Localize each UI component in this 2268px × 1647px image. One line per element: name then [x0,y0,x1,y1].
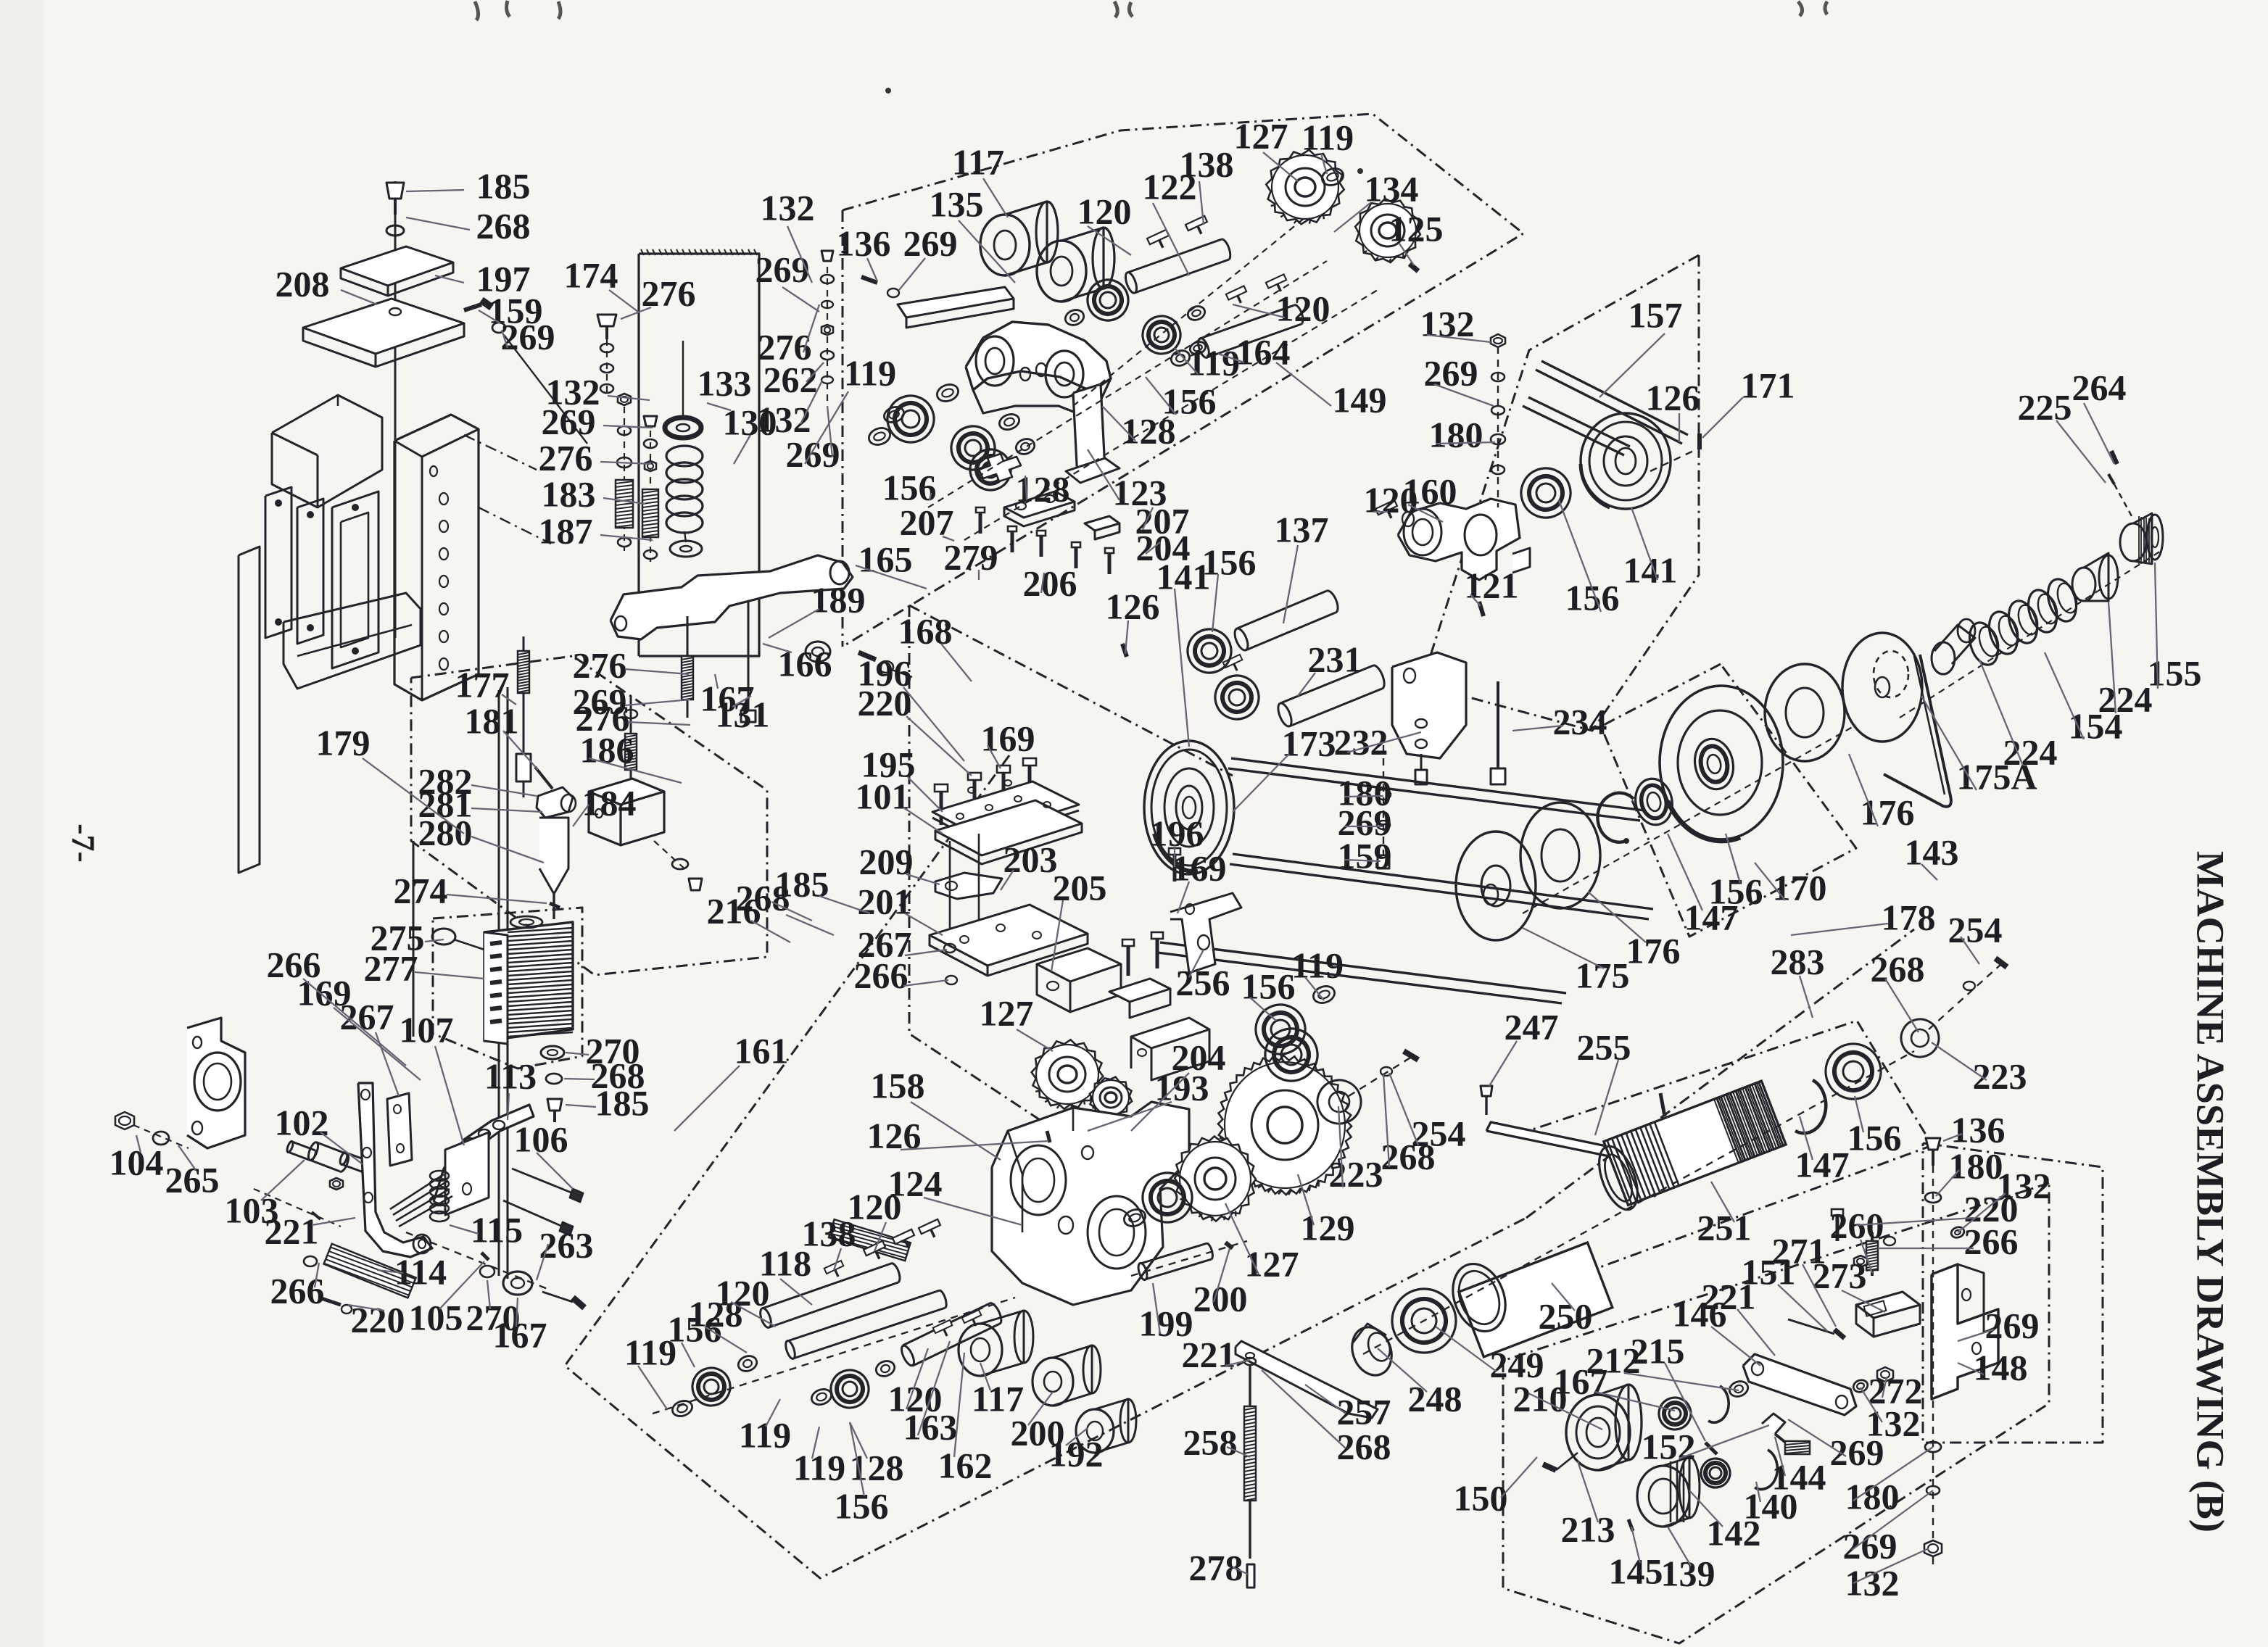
rod 258 threaded [1249,1366,1251,1559]
svg-text:137: 137 [1275,509,1329,549]
screw 186 shaft [630,696,632,779]
screw 260 [1871,1232,1874,1276]
pin 221a [312,1212,320,1219]
svg-text:117: 117 [952,141,1004,182]
svg-text:231: 231 [1308,639,1362,679]
snap 147b [1597,793,1634,842]
svg-text:119: 119 [793,1447,845,1488]
svg-text:126: 126 [1106,586,1160,626]
svg-text:125: 125 [1389,208,1444,249]
bearing 152b [1655,1393,1695,1434]
svg-text:258: 258 [1183,1422,1238,1462]
svg-text:161: 161 [734,1030,789,1071]
rings 128/119 [736,1353,758,1374]
svg-text:174: 174 [564,254,618,295]
svg-text:255: 255 [1577,1026,1631,1067]
shaft 162 [903,1303,990,1345]
svg-text:173: 173 [1282,723,1336,763]
bearing 156j [1631,776,1676,829]
svg-text:138: 138 [802,1213,856,1253]
screw 266/220 [304,1256,317,1266]
svg-text:-7-: -7- [65,823,102,863]
ring 119d [882,405,906,425]
svg-text:216: 216 [707,890,761,931]
shaft 118 threaded [829,1219,911,1261]
pulley 141 right [1581,413,1671,509]
svg-text:128: 128 [850,1447,904,1488]
snap 140 [1755,1450,1777,1489]
bolt 276 box174 [597,315,616,326]
bolt 185b [547,1099,562,1111]
screw 254b [1404,1051,1418,1060]
svg-text:170: 170 [1773,867,1827,908]
screw 234 [1497,681,1499,768]
screw 144 [1762,1414,1785,1434]
lever 146 [1743,1354,1856,1415]
boundary box 174 [639,254,759,656]
svg-text:139: 139 [1661,1553,1716,1593]
svg-text:150: 150 [1454,1477,1508,1518]
svg-text:220: 220 [351,1299,405,1340]
ring 275 [432,929,455,945]
washer 133 [665,418,701,438]
screw 159 [464,304,481,310]
bracket 204c [1109,979,1170,1002]
axis dash pulley group [1523,725,1856,913]
cup 248 [1346,1322,1399,1381]
svg-text:180: 180 [1949,1145,2003,1186]
screw stack 196/220 [968,773,981,813]
svg-text:250: 250 [1539,1295,1593,1336]
svg-text:225: 225 [2018,386,2072,427]
bracket 256 [1170,893,1241,973]
bearing 249 [1383,1280,1465,1362]
svg-text:269: 269 [542,401,596,441]
svg-text:176: 176 [1861,792,1915,832]
microswitch 273 [1856,1292,1920,1318]
svg-text:119: 119 [1291,945,1344,985]
gear 127a [1257,140,1354,234]
svg-text:171: 171 [1741,365,1795,405]
clip 121 small [1512,548,1530,573]
svg-text:269: 269 [1843,1525,1897,1566]
svg-text:157: 157 [1628,294,1683,335]
svg-text:159: 159 [1338,835,1392,876]
ring 119a [866,426,893,448]
cross 128c [979,454,1021,481]
svg-text:119: 119 [1188,342,1240,383]
pulley 210 [1566,1395,1630,1470]
svg-text:106: 106 [514,1119,568,1159]
svg-text:126: 126 [1646,377,1700,418]
bearing 156 inside pulley [1690,735,1737,792]
bracket 113 lower [445,1132,489,1215]
boundary box 157/171 belt unit [1421,255,1699,731]
washer 270 [541,1046,564,1059]
screw 215b [1705,1443,1717,1454]
boundary box 170 pulley unit [1601,664,1856,937]
frame main column [394,415,479,700]
bearing 204b [1258,1021,1325,1088]
svg-text:177: 177 [455,664,510,705]
svg-text:254: 254 [1948,909,2003,950]
svg-text:179: 179 [316,722,371,763]
gear 127 centre [1022,1030,1113,1119]
stack column 183/187 [624,395,625,551]
svg-text:186: 186 [580,729,634,770]
rod 197 axis [394,181,397,638]
svg-text:180: 180 [1429,414,1483,455]
bracket 160/121 [1398,499,1520,580]
svg-text:248: 248 [1408,1378,1462,1419]
svg-text:221: 221 [265,1211,319,1251]
keys 120/138/118 [864,1241,889,1264]
svg-text:189: 189 [811,579,866,620]
stack column 187 [650,419,651,562]
boundary diamond 161 [565,755,1526,1578]
svg-text:269: 269 [903,223,958,263]
svg-text:184: 184 [582,782,637,823]
svg-text:276: 276 [573,644,627,685]
svg-text:166: 166 [778,643,832,684]
svg-text:269: 269 [1985,1305,2040,1345]
svg-text:167: 167 [1554,1361,1608,1401]
screw 247b [1481,1086,1492,1096]
washer 131 bottom [670,541,702,557]
svg-text:256: 256 [1176,962,1230,1003]
belt 157 lines [1536,370,1682,444]
svg-text:162: 162 [938,1445,993,1485]
disc 175 [1456,831,1536,940]
block 184 [589,779,664,805]
screw 254c [1995,958,2007,967]
svg-text:234: 234 [1553,701,1607,742]
svg-text:134: 134 [1365,168,1419,209]
gear 129 [1200,1037,1370,1212]
belt 143 [1884,655,1951,807]
boundary box 148 column [1923,1143,2103,1443]
bearing 156b lower [964,444,1017,496]
rod 177 [523,636,525,760]
boundary box solenoid 277 [433,908,582,1069]
washer 268b [546,1074,562,1084]
screws 106 [512,1169,573,1193]
spring 154 [1965,619,2003,668]
screw 213 [1543,1464,1556,1470]
clips 207/204 [1085,516,1119,531]
screws 267/266 [949,841,951,928]
plate 195/101 [932,781,1079,837]
shaft 120a [1127,239,1222,273]
svg-text:107: 107 [400,1009,454,1050]
svg-text:181: 181 [465,700,519,741]
svg-text:156: 156 [835,1485,889,1526]
construction line 178 [1526,929,1914,1218]
roller 117a [980,215,1030,275]
svg-text:167: 167 [493,1314,547,1355]
pin 121b [1479,602,1483,616]
svg-text:280: 280 [418,812,473,852]
svg-text:132: 132 [761,187,815,228]
svg-text:269: 269 [501,316,555,357]
pin 126d [1122,644,1127,657]
pulley 170 [1660,686,1783,839]
svg-text:268: 268 [1871,948,1925,989]
lever 102 J-shape [358,1083,432,1257]
belt 173 lines [1231,758,1644,810]
svg-text:276: 276 [758,326,812,367]
axis dash lines box A [928,261,1327,507]
svg-text:127: 127 [1245,1243,1299,1284]
svg-text:247: 247 [1505,1006,1559,1047]
svg-text:276: 276 [539,437,593,478]
washer 265 [153,1132,169,1145]
shaft 231 [1280,665,1373,703]
washer 269 [492,323,505,333]
svg-text:120: 120 [1364,479,1418,520]
svg-text:128: 128 [1016,468,1070,509]
nut 221a [330,1178,343,1190]
bolt 159b [1415,770,1427,784]
washer 268 top [386,225,404,236]
svg-text:147: 147 [1684,897,1739,937]
svg-text:266: 266 [1964,1221,2019,1261]
bearing 156d [687,1363,736,1411]
svg-text:274: 274 [394,870,448,910]
svg-text:149: 149 [1333,379,1387,420]
roller 117b [959,1324,1002,1376]
svg-text:105: 105 [409,1297,463,1337]
screw 263 [542,1292,573,1302]
bracket 148 [1932,1264,1998,1399]
plate 107 [387,1093,412,1166]
bracket 104/265 flange [187,1018,245,1148]
pulley 141 left [1144,741,1234,874]
svg-text:187: 187 [539,510,593,551]
arm 113 [434,1105,534,1206]
svg-text:156: 156 [1847,1117,1902,1158]
needle 280/281/282 [537,787,573,818]
plate 197 [341,246,453,286]
pin 278 [1247,1564,1254,1588]
machine frame body [272,395,382,507]
svg-text:269: 269 [756,249,810,289]
axis dash [653,1298,1015,1414]
bearing group right 128b [1082,274,1134,326]
washer 223b [1312,1074,1367,1130]
screw 220b/266b [1832,1209,1843,1241]
wires [390,1174,444,1209]
svg-text:183: 183 [542,473,596,514]
plate 136/269 [898,287,1014,318]
plate 209 [935,873,1002,899]
plate 208 [303,299,464,354]
pin 126c [1697,433,1702,449]
svg-text:MACHINE ASSEMBLY DRAWING (B): MACHINE ASSEMBLY DRAWING (B) [2189,851,2232,1532]
bolt 185 top [386,183,404,199]
svg-text:104: 104 [109,1142,164,1182]
boundary box 283 spindle unit [1518,1021,1932,1270]
svg-text:148: 148 [1974,1347,2028,1387]
roller 200b [1032,1358,1073,1406]
roller 192 [1076,1409,1114,1453]
svg-text:209: 209 [859,841,914,881]
snap ring 147c [1795,1080,1826,1133]
svg-text:213: 213 [1561,1509,1615,1549]
column 180/269/132 right [1932,1166,1934,1566]
pulley 142 [1637,1466,1689,1527]
shaft 103 [292,1142,315,1150]
shaft 137 [1237,591,1327,628]
plate 206 [1004,491,1075,518]
screw 167 long [687,616,689,718]
frame mid channel [332,491,378,668]
tube 251 [1604,1081,1786,1205]
svg-text:168: 168 [898,610,953,651]
svg-text:201: 201 [858,881,912,921]
pin 165b [858,652,876,660]
bearing 156e [1135,1166,1199,1229]
frame tall right plates [498,690,500,1276]
housing 158 [992,1102,1189,1305]
svg-text:192: 192 [1049,1433,1104,1474]
svg-text:205: 205 [1053,867,1107,908]
cup 224a [1934,625,1975,664]
stack column 262 right [827,255,828,406]
boundary box 149 gear train [843,114,1523,647]
svg-text:158: 158 [871,1065,925,1105]
spring 115 [430,1171,449,1181]
svg-text:251: 251 [1697,1207,1752,1248]
svg-text:176: 176 [1626,930,1681,971]
svg-text:133: 133 [698,362,752,403]
svg-text:206: 206 [1023,563,1077,603]
plate 201/203 [930,905,1088,966]
frame tall left plate [239,547,260,873]
svg-text:185: 185 [595,1082,650,1123]
screw stack 180/269/159 [1383,732,1384,863]
svg-text:119: 119 [739,1414,791,1455]
solenoid coil 277 [484,922,573,1041]
svg-text:143: 143 [1905,831,1959,872]
bearing 156i [1249,997,1312,1061]
svg-text:136: 136 [1951,1109,2006,1150]
svg-text:279: 279 [944,536,998,577]
roller 167b [503,1271,532,1295]
svg-text:145: 145 [1609,1551,1663,1591]
roller 166 [806,642,830,662]
scan marks top edge [475,1,510,20]
bearing 156g [1182,623,1238,679]
gear 134a [1346,191,1429,270]
pin 120c [1375,500,1401,523]
svg-text:156: 156 [1565,577,1620,618]
svg-text:264: 264 [2072,367,2127,407]
svg-text:178: 178 [1882,897,1936,937]
axis dash 283 [1363,1051,1914,1354]
svg-text:102: 102 [275,1102,329,1142]
spring 130 [666,446,703,466]
block 205 [1037,948,1121,982]
bearing 156h [1209,670,1265,726]
svg-text:175: 175 [1576,955,1630,995]
pin 126b [1047,1131,1050,1142]
washer 223c [1896,1014,1945,1063]
screw 196c [1169,848,1180,881]
screws 196b/169b [1122,939,1134,976]
screw 131 long [748,602,750,710]
svg-text:154: 154 [2069,705,2123,746]
svg-text:155: 155 [2148,652,2202,693]
screw 274 [550,903,560,908]
svg-text:113: 113 [484,1055,537,1096]
svg-text:208: 208 [276,263,330,304]
boundary box needle 177/179 [411,656,767,975]
roller 135 [1037,241,1086,302]
pin 125 [1410,264,1418,271]
svg-text:132: 132 [1845,1562,1900,1603]
svg-text:129: 129 [1301,1207,1355,1248]
nut 104 [115,1112,134,1129]
washer/bolt 216 [672,859,688,869]
svg-text:141: 141 [1156,556,1211,597]
svg-text:147: 147 [1795,1144,1850,1185]
svg-text:138: 138 [1180,144,1234,184]
frame left posts [265,487,291,638]
pin 181 [535,767,552,789]
pin 105 [481,1253,489,1260]
bearing 156f [1514,461,1577,524]
pin 199/200 [1141,1243,1207,1264]
pin 264 [2111,451,2117,464]
screw 271/272 [1788,1319,1834,1334]
svg-text:277: 277 [364,947,418,988]
washer 270b [480,1266,494,1277]
svg-text:165: 165 [858,539,913,579]
svg-text:180: 180 [1845,1476,1900,1517]
bolt 136b [1926,1138,1940,1150]
svg-text:156: 156 [1241,966,1296,1006]
rod 257 [1236,1341,1378,1418]
ring 212b [1727,1379,1750,1399]
svg-text:119: 119 [1301,117,1354,157]
frame bottom shelf [283,593,421,689]
bearing 156a [881,389,940,449]
bearing row2 [945,420,1001,476]
boundary box 150 [1503,1183,2049,1643]
svg-text:152: 152 [1642,1426,1696,1466]
svg-text:128: 128 [1122,410,1176,451]
svg-text:101: 101 [856,776,910,816]
svg-text:114: 114 [394,1251,447,1292]
washer 176c [1765,664,1845,761]
svg-text:119: 119 [844,352,896,393]
svg-text:127: 127 [1234,115,1288,156]
svg-text:141: 141 [1623,549,1678,590]
pin 182 [1660,1093,1665,1116]
svg-text:135: 135 [930,183,984,224]
svg-text:169: 169 [981,718,1035,758]
cup 224b [2072,568,2095,601]
svg-text:136: 136 [837,223,891,263]
ring 119b [1320,166,1346,188]
bracket 232 [1392,652,1466,758]
svg-text:146: 146 [1673,1293,1727,1334]
svg-text:223: 223 [1329,1153,1383,1194]
link 123 leg [1073,384,1105,478]
svg-text:121: 121 [1465,565,1519,605]
link 123 [966,322,1111,391]
